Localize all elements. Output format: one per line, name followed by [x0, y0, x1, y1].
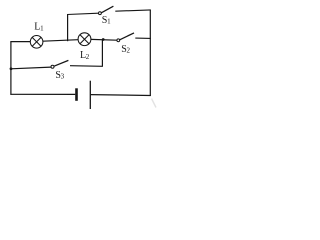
switch S3: [51, 60, 68, 68]
wire right rail: [149, 10, 151, 96]
node junction dot at S2 branch: [102, 38, 105, 41]
wire S3 row left: [11, 67, 51, 69]
wire S1 row left: [67, 13, 98, 14]
lamp L2: [78, 33, 91, 46]
battery positive plate (long thin): [89, 81, 91, 109]
wire bottom row right: [91, 94, 151, 97]
wire top-left of lamp row: [10, 41, 30, 43]
switch S1: [99, 6, 114, 14]
wire branch S3 row up to junction: [101, 40, 103, 67]
lamp L1: [30, 36, 43, 49]
scan smudge bottom-right corner: [152, 99, 157, 108]
wire L2 to S2: [91, 38, 117, 41]
battery negative plate (short thick): [75, 88, 78, 101]
node junction dot left rail S3 row: [10, 67, 13, 70]
wire branch up to S1 row: [67, 14, 69, 41]
wire between L1 and L2: [43, 40, 78, 42]
wire left rail: [10, 41, 12, 94]
wire bottom row left: [10, 93, 75, 95]
wire S2 right: [135, 37, 151, 39]
switch S2: [117, 33, 134, 42]
wire S3 row right: [70, 65, 103, 68]
wire S1 row right: [115, 10, 151, 11]
